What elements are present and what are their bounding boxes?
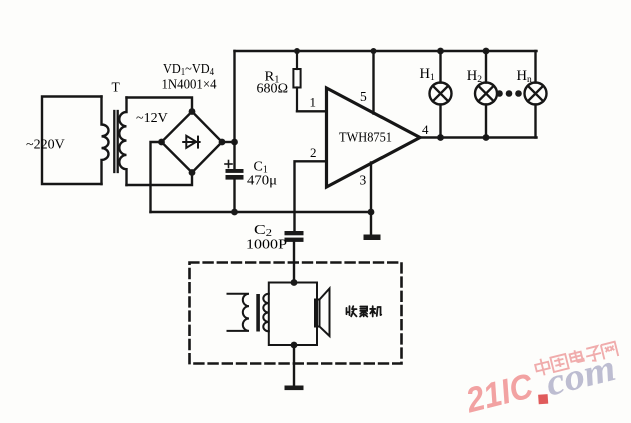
wire pin 2 — [295, 161, 327, 231]
pin 2 label — [310, 145, 317, 160]
svg-text:680Ω: 680Ω — [257, 82, 289, 97]
wire C1 bottom to negative rail — [233, 180, 235, 212]
recorder inner box — [269, 283, 317, 346]
svg-text:5: 5 — [360, 89, 367, 104]
node recorder box top — [291, 279, 298, 286]
ground at pin 3 — [364, 212, 381, 240]
wire recorder box bottom to ground — [293, 345, 295, 385]
node recorder box bottom — [291, 342, 298, 349]
label R1 — [265, 70, 280, 86]
svg-text:H2: H2 — [467, 68, 482, 85]
wire bridge left vertex to negative rail — [151, 142, 162, 212]
svg-text:VD1~VD4: VD1~VD4 — [163, 62, 214, 78]
svg-text:Hn: Hn — [517, 68, 532, 85]
label shoulu-ji (recorder) — [347, 306, 382, 316]
svg-text:21IC: 21IC — [461, 366, 537, 420]
svg-text:H1: H1 — [420, 66, 435, 83]
node positive vertical junction — [231, 139, 238, 146]
pin 5 label — [360, 89, 367, 104]
node pin 3 at negative rail — [368, 209, 375, 216]
label 680 ohm — [257, 82, 289, 97]
wire secondary bottom to bridge bottom vertex — [127, 173, 193, 186]
node H2 bottom — [483, 134, 490, 141]
wire pin 4 output rail — [420, 136, 537, 138]
node bridge top vertex — [189, 108, 196, 115]
lamp H2 — [475, 51, 497, 138]
wire pin 5 to supply rail — [372, 51, 374, 114]
node R1 top at supply rail — [294, 48, 300, 54]
wire pin 1 — [297, 110, 327, 112]
svg-text:~12V: ~12V — [136, 111, 168, 126]
label Hn — [517, 68, 532, 85]
wire C2 bottom to recorder box — [293, 242, 295, 283]
wire secondary top to bridge top vertex — [127, 98, 193, 112]
pin 4 label — [422, 122, 429, 137]
label TWH8751 — [339, 130, 392, 145]
mains source ~220V loop — [42, 97, 102, 185]
label 470u — [247, 174, 277, 189]
node H1 top — [437, 48, 444, 55]
node H2 top — [483, 48, 490, 55]
svg-text:4: 4 — [422, 122, 429, 137]
transformer T primary winding — [102, 97, 109, 185]
node bridge left vertex — [158, 139, 165, 146]
wire top supply rail — [235, 50, 537, 52]
label 1N4001x4 — [162, 78, 217, 93]
svg-text:1000P: 1000P — [246, 238, 287, 253]
node C1 at negative rail — [231, 209, 238, 216]
svg-text:~220V: ~220V — [26, 138, 65, 153]
watermark zhongguo dianzi wang — [534, 340, 618, 377]
pin 3 label — [360, 172, 367, 187]
lamp H1 — [430, 51, 452, 138]
resistor R1 — [293, 51, 300, 111]
recorder output transformer right coil — [263, 294, 269, 332]
speaker — [315, 289, 330, 337]
label 1000P — [246, 238, 287, 253]
capacitor C2 plates — [285, 231, 304, 242]
node bridge right vertex — [219, 139, 226, 146]
transformer T core — [114, 111, 117, 172]
node pin 5 at supply rail — [371, 48, 377, 54]
dashed enclosure recorder — [190, 263, 402, 364]
ellipsis dots between H2 and Hn — [496, 90, 522, 97]
svg-text:3: 3 — [360, 172, 367, 187]
watermark 21IC.com — [461, 346, 619, 423]
wire main positive vertical (top rail to C1 top) — [233, 51, 235, 169]
op-amp U1 TWH8751 triangle — [327, 88, 421, 187]
svg-text:T: T — [112, 80, 121, 95]
recorder output transformer left coil — [228, 294, 250, 331]
recorder output transformer core — [256, 294, 260, 332]
bridge rectifier VD1~VD4 diamond — [162, 112, 223, 173]
svg-text:470μ: 470μ — [247, 174, 277, 189]
svg-text:2: 2 — [310, 145, 317, 160]
lamp Hn — [525, 51, 547, 138]
svg-text:TWH8751: TWH8751 — [339, 130, 392, 145]
svg-text:1: 1 — [310, 95, 317, 110]
label H2 — [467, 68, 482, 85]
node H1 bottom — [437, 134, 444, 141]
transformer T secondary winding — [119, 98, 126, 186]
diode symbol inside bridge — [183, 136, 199, 148]
label C2 — [254, 223, 272, 239]
node bridge bottom vertex — [189, 169, 196, 176]
wire bottom negative rail — [151, 211, 372, 213]
wire pin 3 to negative rail — [370, 163, 372, 213]
ground below recorder — [285, 386, 304, 391]
svg-text:1N4001×4: 1N4001×4 — [162, 78, 217, 93]
label ~220V — [26, 138, 65, 153]
label H1 — [420, 66, 435, 83]
label ~12V — [136, 111, 168, 126]
wire bridge right vertex to main positive vertical — [222, 141, 235, 143]
label T — [112, 80, 121, 95]
label VD1~VD4 — [163, 62, 214, 78]
pin 1 label — [310, 95, 317, 110]
label C1 — [254, 160, 268, 176]
C1 plus sign — [225, 161, 232, 168]
capacitor C1 plates — [226, 169, 244, 180]
